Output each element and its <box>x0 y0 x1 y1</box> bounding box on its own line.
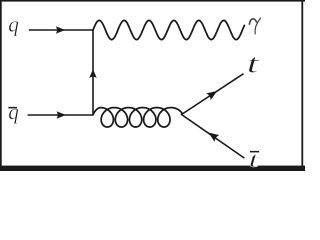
frame top border <box>0 0 305 2</box>
gluon coil line <box>93 108 182 128</box>
arrow on q line <box>56 26 65 34</box>
label tbar <box>250 151 259 167</box>
wire: outgoing antitop tbar line <box>182 115 245 159</box>
label qbar <box>8 107 18 124</box>
arrow on internal propagator (up) <box>89 69 97 78</box>
arrow on t line <box>206 91 217 100</box>
frame bottom bar <box>0 166 305 171</box>
label gamma (custom glyph) <box>249 18 260 35</box>
label t <box>249 57 259 73</box>
wire: internal quark propagator (vertical) <box>92 30 94 115</box>
wire: incoming quark q line <box>29 29 93 31</box>
wire: outgoing top quark t line <box>182 74 244 115</box>
photon line to gamma <box>93 20 244 39</box>
frame right border <box>301 0 303 166</box>
wire: incoming antiquark qbar line <box>28 114 93 116</box>
arrow on qbar line <box>57 111 66 119</box>
frame left border <box>0 0 2 171</box>
label q <box>9 21 19 36</box>
arrow on tbar line (toward vertex) <box>208 133 219 142</box>
